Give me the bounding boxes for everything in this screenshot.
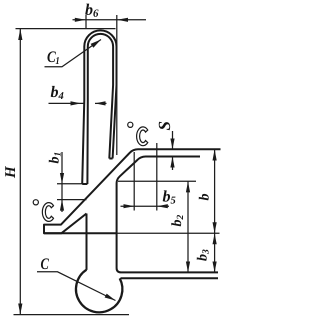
b1 lower extension line	[57, 199, 87, 201]
b6 right extension line	[116, 15, 118, 155]
dimension b6 line	[73, 19, 147, 21]
b6 right arrowhead	[117, 18, 128, 22]
b1 lower arrowhead	[60, 200, 64, 211]
svg-text:b: b	[198, 194, 213, 201]
C1 arrowhead	[91, 40, 101, 48]
b2 top extension line	[118, 180, 196, 182]
dimension b1 line	[61, 152, 63, 212]
b6 left extension line	[85, 15, 87, 29]
pocket top line	[44, 232, 117, 234]
flange bottom and lower web diagonal into pocket right wall	[117, 157, 218, 273]
svg-text:b2: b2	[170, 215, 186, 227]
b1 upper arrowhead	[60, 173, 64, 184]
dimension b4 left line	[49, 102, 85, 104]
b1 upper extension line	[57, 183, 82, 185]
b5 right extension line	[156, 143, 158, 211]
H top arrowhead	[18, 29, 22, 40]
b3 middle extension line	[117, 232, 220, 234]
dimension b and b3 shared line	[214, 149, 216, 272]
bottom flange bottom line	[121, 277, 219, 279]
b5 left arrowhead	[124, 204, 135, 208]
b5 left extension line	[133, 152, 135, 211]
upper degree-C mark: degree circle	[128, 122, 133, 127]
svg-text:b3: b3	[196, 249, 212, 261]
svg-text:S: S	[155, 121, 174, 130]
C1 leader line	[45, 40, 102, 67]
hairpin right leg end cap	[109, 158, 112, 160]
b4 left arrowhead	[71, 101, 82, 105]
dimension b5 line	[121, 205, 170, 207]
b3 bottom arrowhead	[213, 262, 217, 273]
svg-text:b1: b1	[48, 152, 64, 164]
dimension H line	[19, 29, 21, 315]
hairpin clip outer contour	[82, 30, 116, 184]
b top arrowhead	[213, 149, 217, 160]
svg-text:C: C	[41, 256, 50, 273]
H bottom extension line	[14, 314, 130, 316]
b6 left arrowhead	[75, 18, 86, 22]
dimension b2 line	[187, 181, 189, 272]
dimension b4 right stub	[95, 102, 107, 104]
dimension S line	[172, 131, 174, 170]
b bottom arrowhead	[213, 222, 217, 233]
H top extension line	[16, 28, 116, 30]
H bottom arrowhead	[18, 304, 22, 315]
svg-text:b4: b4	[50, 84, 63, 102]
b2 top arrowhead	[186, 181, 190, 192]
b5 right arrowhead	[157, 204, 168, 208]
b2 bottom arrowhead	[186, 262, 190, 273]
b3 top arrowhead	[213, 233, 217, 244]
b4 right arrowhead	[95, 101, 106, 105]
C arrowhead	[105, 294, 116, 301]
lower degree-C mark: outlined C	[42, 203, 53, 222]
S lower arrowhead	[170, 157, 174, 168]
C leader line	[37, 272, 116, 301]
bulb circle	[76, 270, 122, 313]
svg-text:C1: C1	[47, 49, 60, 67]
svg-text:b5: b5	[162, 189, 175, 207]
svg-text:H: H	[3, 165, 19, 179]
hairpin left leg end cap	[82, 183, 87, 185]
hairpin clip inner contour	[87, 34, 113, 184]
upper degree-C mark: outlined C	[137, 127, 148, 146]
S upper arrowhead	[170, 139, 174, 150]
pocket left wall	[86, 214, 88, 270]
lower degree-C mark: degree circle	[33, 200, 38, 205]
Z-profile sheet outline	[44, 149, 221, 233]
svg-text:b6: b6	[85, 2, 99, 20]
